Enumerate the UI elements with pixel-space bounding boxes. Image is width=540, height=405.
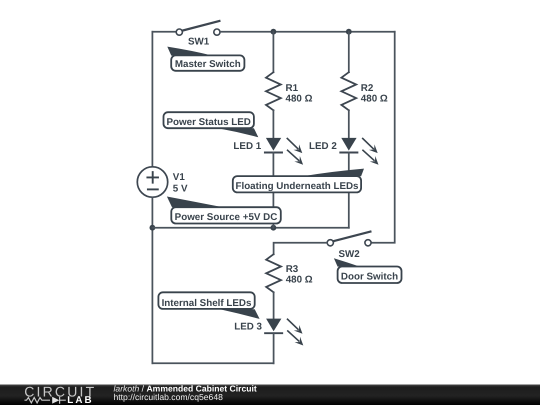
wire bottom rail: [152, 362, 273, 364]
label SW2: [339, 249, 361, 260]
svg-text:SW1: SW1: [188, 36, 210, 47]
footer credit text: [114, 384, 257, 403]
resistor R2: [341, 72, 356, 110]
wire LED3 bottom lead: [273, 333, 275, 363]
wire left rail lower: [151, 198, 153, 364]
svg-text:R1: R1: [286, 83, 299, 94]
wire R2 to LED2: [348, 110, 350, 138]
wire LED1 bottom lead: [272, 153, 274, 228]
label SW1: [188, 36, 210, 47]
svg-text:480 Ω: 480 Ω: [361, 94, 388, 105]
resistor R3: [266, 254, 281, 292]
node junction top R2 branch: [346, 29, 352, 35]
wire mid horizontal: [152, 227, 348, 229]
annotation callout Door Switch: [334, 258, 402, 283]
wire R3 to LED3: [273, 292, 275, 318]
svg-text:R3: R3: [286, 264, 299, 275]
node junction mid R1 branch: [271, 225, 277, 231]
label R3 value: [286, 264, 313, 286]
footer bar: [0, 385, 540, 405]
svg-text:R2: R2: [361, 83, 374, 94]
node junction left rail mid wire: [150, 225, 156, 231]
svg-text:Floating Underneath LEDs: Floating Underneath LEDs: [235, 181, 359, 192]
svg-text:LED 1: LED 1: [233, 141, 261, 152]
voltage source V1: [137, 167, 167, 197]
label LED 1: [233, 141, 261, 152]
svg-text:480 Ω: 480 Ω: [286, 275, 313, 286]
wire top left segment: [152, 31, 176, 33]
svg-text:480 Ω: 480 Ω: [286, 94, 313, 105]
wire R1 to LED1: [272, 110, 274, 138]
LED 3: [265, 319, 303, 346]
label LED 3: [234, 322, 262, 333]
annotation callout Power Status LED: [164, 112, 259, 137]
label V1 value: [173, 172, 188, 194]
LED 1: [265, 138, 303, 165]
svg-text:LAB: LAB: [67, 395, 93, 405]
LED 2: [340, 138, 378, 165]
label R2 value: [361, 83, 388, 105]
annotation callout Power Source +5V DC: [167, 197, 281, 224]
wire top right segment: [220, 31, 395, 33]
label R1 value: [286, 83, 313, 105]
node junction top R1 branch: [271, 29, 277, 35]
svg-text:Power Status LED: Power Status LED: [167, 117, 251, 128]
wire R1 top lead: [272, 32, 274, 72]
wire R2 top lead: [348, 32, 350, 72]
switch SW2: [327, 232, 371, 246]
CircuitLab logo: [24, 383, 96, 405]
svg-text:Power Source +5V DC: Power Source +5V DC: [175, 212, 278, 223]
annotation callout Master Switch: [167, 47, 244, 71]
annotation callout Internal Shelf LEDs: [158, 292, 259, 319]
wire SW2 to R3 branch: [274, 243, 328, 254]
svg-text:V1: V1: [173, 172, 186, 183]
svg-text:SW2: SW2: [339, 249, 361, 260]
svg-text:LED 3: LED 3: [234, 322, 262, 333]
annotation callout Floating Underneath LEDs: [233, 169, 364, 193]
svg-text:http://circuitlab.com/cq5e648: http://circuitlab.com/cq5e648: [114, 392, 224, 402]
resistor R1: [266, 72, 281, 110]
wire right rail: [371, 32, 395, 243]
svg-text:Door Switch: Door Switch: [341, 271, 398, 282]
svg-text:Master Switch: Master Switch: [175, 59, 241, 70]
wire left rail upper: [151, 32, 153, 167]
svg-text:Internal Shelf LEDs: Internal Shelf LEDs: [162, 298, 252, 309]
label LED 2: [309, 141, 337, 152]
switch SW1: [176, 21, 220, 35]
svg-text:LED 2: LED 2: [309, 141, 337, 152]
wire LED2 bottom lead: [348, 153, 350, 228]
svg-text:5 V: 5 V: [173, 183, 188, 194]
